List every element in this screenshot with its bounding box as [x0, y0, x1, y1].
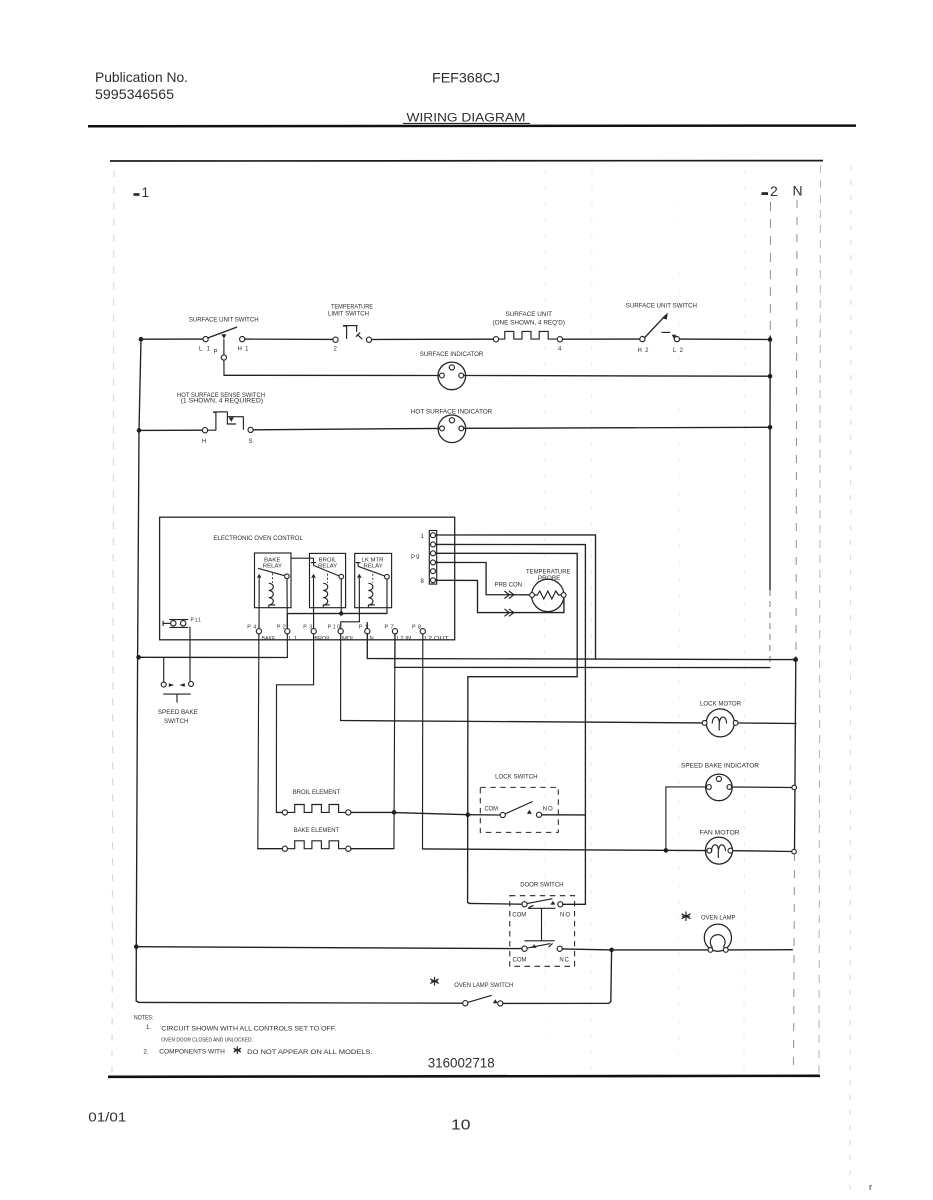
pin P2 [277, 579, 297, 642]
relay K1 BAKE RELAY [255, 553, 292, 608]
svg-text:N: N [370, 636, 374, 642]
wire row2 P terminal drop [223, 360, 225, 375]
resistor BROIL ELEMENT [276, 790, 351, 815]
svg-text:1: 1 [142, 185, 150, 200]
box ELECTRONIC OVEN CONTROL U1 [160, 517, 455, 640]
node junction dot L2 row3 [768, 425, 773, 430]
node L2 label (top right) [762, 183, 779, 199]
wire row2 indicator to L2 rail [464, 375, 770, 378]
wire lock motor to N rail [738, 722, 796, 725]
svg-text:TEMPERATURE: TEMPERATURE [526, 570, 571, 576]
header publication number [95, 69, 188, 102]
svg-text:(ONE SHOWN, 4 REQ'D): (ONE SHOWN, 4 REQ'D) [493, 321, 566, 327]
scan crease right margin [850, 165, 851, 1190]
svg-text:OVEN LAMP SWITCH: OVEN LAMP SWITCH [454, 983, 513, 989]
svg-text:BAKE: BAKE [262, 636, 276, 642]
svg-text:Publication No.: Publication No. [95, 69, 188, 85]
wire bottom row L1 to door switch [136, 947, 522, 949]
svg-text:(1 SHOWN, 4 REQUIRED): (1 SHOWN, 4 REQUIRED) [181, 399, 264, 405]
svg-text:2: 2 [770, 183, 778, 199]
node junction dot oven lamp switch tap [609, 948, 614, 953]
wire lk mtr relay arm to P10 [341, 578, 360, 629]
switch DOOR SWITCH (lower pole COM-NC) [513, 943, 570, 963]
svg-text:NO: NO [543, 807, 553, 813]
wire P7 vertical to broil element row [393, 667, 396, 812]
wire P9 pin4 to probe upper [436, 562, 530, 594]
relay K3 LK MTR RELAY [355, 553, 392, 607]
resistor SURFACE UNIT element [493, 312, 566, 353]
svg-text:L2 IN: L2 IN [397, 636, 412, 642]
node junction dot L2 row1 [768, 337, 773, 342]
svg-text:L2 OUT: L2 OUT [424, 636, 449, 642]
svg-text:MDL: MDL [342, 636, 355, 642]
svg-text:P9: P9 [411, 555, 420, 561]
svg-text:N: N [793, 183, 803, 199]
svg-text:P: P [214, 350, 218, 356]
switch OVEN LAMP SWITCH [454, 983, 513, 1006]
wire N rail (dashed upper) [796, 200, 797, 655]
node junction dot bottom row at L1 [134, 944, 139, 949]
header rule thick line [88, 124, 856, 127]
wire oven lamp switch row from L1 rail [139, 1001, 463, 1004]
wire P9 pin8 to probe lower [436, 580, 564, 612]
wire broil element to junction [351, 811, 394, 813]
svg-text:RELAY: RELAY [263, 563, 283, 569]
svg-text:10: 10 [451, 1116, 471, 1133]
node junction dot L2 row2 [768, 374, 773, 379]
node junction dot N bus at N rail [793, 657, 798, 662]
frame top border [110, 160, 823, 162]
wire P4 stem down to bake element row [258, 634, 259, 849]
node junction dot broil output on bus613 [339, 611, 343, 615]
svg-text:S: S [249, 439, 253, 445]
resistor BAKE ELEMENT [258, 828, 394, 851]
wire L2 IN bus P7 down and right to L2 rail [395, 634, 770, 668]
wire L2 vertical junction down to bake row end [393, 812, 395, 848]
wire row2 to surface indicator [224, 374, 439, 376]
svg-text:SPEED BAKE INDICATOR: SPEED BAKE INDICATOR [681, 763, 760, 769]
wire row1 to surface unit element [372, 338, 494, 340]
wire relay outputs common bus at 613 [287, 579, 387, 629]
wire P9 pin3 to lock switch COM feed [436, 553, 577, 903]
motor LOCK MOTOR M1 [700, 702, 742, 737]
wire P2 stem to L1 bus [286, 634, 288, 658]
svg-text:FAN MOTOR: FAN MOTOR [700, 831, 741, 837]
notes text block [134, 1014, 373, 1055]
svg-text:H: H [202, 439, 206, 445]
wire P11 drop to speed bake switch [188, 627, 191, 681]
svg-text:LOCK MOTOR: LOCK MOTOR [700, 702, 742, 708]
symbol asterisk (oven lamp) [682, 912, 691, 922]
switch SURFACE UNIT SWITCH (right) [626, 304, 697, 354]
wire L1 bus from rail to P2 [139, 656, 288, 658]
lamp OVEN LAMP [701, 916, 736, 953]
pin P8 [412, 624, 450, 641]
svg-text:BROIL ELEMENT: BROIL ELEMENT [293, 790, 341, 796]
svg-text:NOTES:: NOTES: [134, 1014, 154, 1021]
svg-text:LOCK SWITCH: LOCK SWITCH [495, 775, 537, 781]
node junction dot L1 row3 [137, 428, 142, 433]
svg-text:SURFACE UNIT SWITCH: SURFACE UNIT SWITCH [189, 317, 259, 323]
wire oven lamp to N rail [728, 949, 792, 951]
wire L2 right rail (lower faded to L2 bus) [769, 590, 771, 668]
node junction dot lock switch feed [466, 812, 471, 817]
svg-text:PRB CON: PRB CON [495, 582, 523, 588]
wire fan row P8 corner to fan motor [423, 849, 707, 851]
terminal circle on N rail (indicator) [792, 785, 797, 790]
wire speed bake indicator to N rail [732, 786, 792, 789]
wire row1 L1 to surface unit switch [141, 338, 203, 340]
svg-text:SURFACE UNIT SWITCH: SURFACE UNIT SWITCH [626, 304, 697, 310]
wire lock motor row P10 to motor [341, 721, 702, 723]
wire speed bake indicator feed [666, 787, 707, 851]
wire door switch NC to junction [562, 949, 611, 950]
wire bake relay to broil relay [291, 557, 314, 559]
lamp SPEED BAKE INDICATOR [681, 763, 760, 800]
svg-text:TEMPERATURE: TEMPERATURE [331, 304, 373, 310]
switch DOOR SWITCH (upper pole COM-NO) [469, 882, 585, 966]
svg-text:SWITCH: SWITCH [164, 719, 189, 725]
wire P8 L2 OUT down to fan row [422, 634, 424, 849]
pin P4 [247, 578, 276, 642]
switch TEMPERATURE LIMIT SWITCH [328, 304, 373, 352]
node junction dot broil to L2 [392, 810, 397, 815]
wire L2 right rail (solid) [769, 336, 771, 590]
switch SPEED BAKE SWITCH [158, 657, 198, 724]
wire row3 L1 to hot surface sense switch [139, 429, 202, 431]
svg-text:DOOR SWITCH: DOOR SWITCH [520, 882, 563, 888]
switch LOCK SWITCH [468, 775, 559, 833]
scan crease artifact lines [544, 170, 745, 1070]
svg-text:CIRCUIT SHOWN WITH ALL CONTROL: CIRCUIT SHOWN WITH ALL CONTROLS SET TO O… [161, 1026, 336, 1033]
svg-text:COMPONENTS WITH: COMPONENTS WITH [159, 1049, 225, 1056]
svg-text:COM: COM [485, 807, 499, 813]
door switch mechanical link [524, 908, 555, 941]
lamp SURFACE INDICATOR [420, 352, 484, 390]
wire L1 left rail [136, 339, 141, 1002]
svg-text:OVEN LAMP: OVEN LAMP [701, 916, 736, 922]
node junction dot speed bake indicator tap [664, 848, 669, 853]
frame left border (faded dashed) [112, 170, 114, 1072]
svg-text:r: r [869, 1182, 872, 1192]
wire P10 stem down to lock motor row [340, 634, 342, 721]
svg-text:2.: 2. [143, 1049, 148, 1056]
svg-text:NO: NO [560, 913, 570, 919]
wire row3 indicator to L2 rail [464, 427, 770, 428]
wire P9 pin2 down to lock and door switches [436, 544, 586, 904]
wire bottom row junction to oven lamp [612, 949, 708, 951]
svg-text:WIRING DIAGRAM: WIRING DIAGRAM [407, 110, 526, 124]
pin P3 [303, 578, 331, 642]
svg-text:01/01: 01/01 [88, 1110, 126, 1125]
pin P7 [385, 624, 412, 641]
resistor TEMPERATURE PROBE [526, 570, 571, 612]
pin P1 [359, 622, 374, 642]
svg-text:SURFACE INDICATOR: SURFACE INDICATOR [420, 352, 484, 358]
wire broil row to lock switch [394, 813, 468, 815]
motor FAN MOTOR M2 [700, 831, 741, 865]
connector PRB CON chevrons [495, 582, 523, 616]
switch HOT SURFACE SENSE SWITCH [177, 393, 265, 445]
switch SURFACE UNIT SWITCH (left) [189, 317, 259, 360]
svg-text:BROIL: BROIL [314, 636, 331, 642]
svg-text:BAKE ELEMENT: BAKE ELEMENT [294, 828, 340, 834]
wire P9 pin1 to N bus [436, 535, 596, 659]
svg-text:DO NOT APPEAR ON ALL MODELS.: DO NOT APPEAR ON ALL MODELS. [247, 1049, 373, 1056]
svg-text:NC: NC [559, 957, 569, 963]
node junction dot L1 bus left [136, 655, 141, 660]
wire row3 to hot surface indicator [253, 428, 439, 429]
svg-text:SURFACE UNIT: SURFACE UNIT [506, 312, 553, 318]
wire oven lamp switch to junction vertical [503, 950, 612, 1004]
symbol asterisk (notes) [234, 1046, 241, 1054]
svg-text:1.: 1. [146, 1025, 151, 1031]
wire N bus P1 to N rail [367, 634, 795, 660]
wire row1 to L2 rail [680, 338, 771, 340]
header title WIRING DIAGRAM [403, 110, 530, 124]
wire fan motor to N rail [733, 850, 792, 853]
wire L2 right rail (dashed upper) [769, 202, 771, 336]
svg-text:RELAY: RELAY [364, 563, 384, 569]
frame right border (faded dashed) [819, 165, 821, 1073]
wire lock switch NO to pin2 vertical [542, 814, 586, 816]
svg-text:ELECTRONIC OVEN CONTROL: ELECTRONIC OVEN CONTROL [213, 535, 303, 542]
symbol asterisk (oven lamp switch) [430, 977, 438, 986]
svg-text:P11: P11 [191, 618, 202, 624]
wire N rail (solid middle) [795, 657, 796, 853]
svg-text:COM: COM [513, 957, 527, 963]
wire row1 element to right surface unit switch [563, 338, 640, 340]
lamp HOT SURFACE INDICATOR [411, 409, 493, 442]
frame bottom border [108, 1076, 820, 1077]
svg-text:FEF368CJ: FEF368CJ [432, 70, 500, 86]
pin P10 [328, 624, 355, 641]
svg-text:OVEN DOOR CLOSED AND UNLOCKED.: OVEN DOOR CLOSED AND UNLOCKED. [161, 1038, 253, 1044]
connector P9 [411, 531, 437, 586]
svg-text:COM: COM [512, 913, 526, 919]
wire P3 jog down to broil element row [276, 634, 313, 813]
node L1 label (top left) [134, 185, 150, 200]
terminal circle on N rail (fan) [792, 849, 797, 854]
relay K2 BROIL RELAY [310, 553, 346, 607]
svg-text:SPEED BAKE: SPEED BAKE [158, 710, 198, 716]
connector P11 [163, 618, 201, 628]
svg-text:316002718: 316002718 [428, 1056, 495, 1071]
node junction dot L1 row1 [139, 337, 144, 342]
wire N rail (dashed lower) [794, 853, 795, 1070]
svg-text:5995346565: 5995346565 [95, 86, 174, 102]
svg-text:LIMIT SWITCH: LIMIT SWITCH [328, 312, 369, 318]
wire row1 H1 to temperature limit switch [245, 338, 333, 340]
